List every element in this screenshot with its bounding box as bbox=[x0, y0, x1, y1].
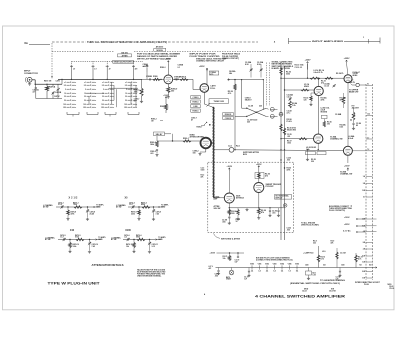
svg-text:THRU ALL SWITCHED ATTENUATOR 4: THRU ALL SWITCHED ATTENUATOR 4 OF AMPLIF… bbox=[87, 41, 167, 44]
label R2-84C bbox=[340, 124, 355, 140]
svg-text:o: o bbox=[136, 82, 137, 84]
dash-dot leader line (mid) bbox=[168, 38, 311, 44]
svg-text:R2-24 PL: R2-24 PL bbox=[336, 72, 345, 75]
component R2-58 bbox=[228, 84, 237, 95]
trigger pickoff dashed box bbox=[208, 162, 294, 233]
svg-text:120: 120 bbox=[304, 100, 307, 102]
dashed leader line 2 bbox=[52, 50, 282, 52]
svg-text:20: 20 bbox=[84, 96, 86, 98]
crossover wires bbox=[246, 108, 266, 118]
svg-text:4.5uH: 4.5uH bbox=[348, 137, 354, 140]
label R2-58A top bbox=[229, 70, 236, 75]
svg-text:o: o bbox=[75, 89, 76, 91]
svg-text:7-45: 7-45 bbox=[156, 212, 159, 215]
triode V2-95A bbox=[224, 193, 234, 203]
svg-text:+100V: +100V bbox=[143, 66, 149, 68]
label atten driver bbox=[190, 134, 205, 139]
attenuator ladder interconnects bbox=[86, 82, 138, 107]
title 4 CHANNEL SWITCHED AMPLIFIER bbox=[255, 293, 345, 298]
svg-text:SW470A (ROTARY): SW470A (ROTARY) bbox=[114, 61, 133, 64]
svg-text:330k: 330k bbox=[286, 74, 290, 76]
svg-text:o: o bbox=[95, 82, 96, 84]
+100V arrow in box bbox=[227, 166, 233, 193]
svg-text:.005: .005 bbox=[215, 275, 218, 277]
svg-text:1k: 1k bbox=[236, 221, 238, 223]
note block voltage conditions bbox=[137, 53, 181, 61]
note heater wiring bbox=[290, 279, 346, 285]
svg-text:o: o bbox=[75, 104, 76, 106]
coax connector output upper bbox=[336, 72, 366, 87]
svg-text:47k: 47k bbox=[265, 175, 268, 178]
label lower mid tube bbox=[330, 136, 343, 141]
svg-text:(THIS PLUG-IN UNIT): (THIS PLUG-IN UNIT) bbox=[301, 225, 319, 227]
svg-text:220: 220 bbox=[259, 106, 262, 108]
svg-text:FOLL: FOLL bbox=[210, 88, 216, 90]
wire V380A plate to V380B bbox=[173, 79, 200, 89]
wire input to attenuator bbox=[32, 80, 62, 85]
label SW 5010 bbox=[156, 46, 163, 49]
label V380A 6DJ8 bbox=[174, 76, 181, 81]
resistor R380-8 bbox=[160, 104, 168, 113]
grid network C380B R380 bbox=[142, 76, 164, 80]
ground X10 bbox=[68, 250, 91, 253]
svg-text:C2-9 47: C2-9 47 bbox=[340, 251, 346, 254]
switch wafer 1 contacts bbox=[63, 81, 76, 109]
variable resistor R470A bbox=[45, 84, 55, 92]
svg-text:1.2-5.5: 1.2-5.5 bbox=[324, 86, 329, 88]
grid stopper R380-4 bbox=[176, 65, 188, 81]
note interconnecting socket bbox=[355, 282, 381, 286]
component column C380-5 bbox=[191, 96, 201, 100]
component plug label bbox=[287, 119, 293, 123]
svg-text:L2-86 PL: L2-86 PL bbox=[348, 82, 355, 84]
svg-text:470k: 470k bbox=[71, 212, 75, 215]
component labels below column bbox=[191, 118, 197, 122]
shielded coax cable run bbox=[212, 108, 214, 198]
svg-text:o: o bbox=[95, 104, 96, 106]
label mid tube bbox=[304, 83, 310, 88]
bias arrow 100V bbox=[351, 205, 367, 207]
grid resistor R380-2 bbox=[143, 65, 149, 80]
note to all stages bbox=[301, 222, 319, 227]
svg-text:+225V: +225V bbox=[256, 164, 262, 166]
svg-text:C2-58: C2-58 bbox=[248, 106, 253, 108]
svg-text:R380-4: R380-4 bbox=[180, 75, 187, 78]
svg-text:1uF: 1uF bbox=[235, 262, 238, 264]
svg-text:.001: .001 bbox=[272, 213, 276, 215]
svg-text:V386: V386 bbox=[295, 264, 299, 266]
svg-text:(TIMING CIRCUIT): (TIMING CIRCUIT) bbox=[222, 58, 239, 60]
svg-text:MODEL: MODEL bbox=[157, 50, 164, 52]
signal bus A bbox=[280, 62, 282, 240]
twisted pair dashed A bbox=[266, 63, 268, 107]
wire into atten driver grid bbox=[173, 140, 201, 142]
svg-text:+100V: +100V bbox=[163, 95, 169, 97]
+100V feed mid bbox=[163, 95, 169, 104]
capacitor C470B bbox=[51, 84, 61, 95]
riser chain 1 bbox=[303, 246, 325, 268]
svg-text:3-12: 3-12 bbox=[152, 246, 155, 248]
svg-text:+ LAMP R2-8: + LAMP R2-8 bbox=[303, 251, 313, 254]
svg-text:V383: V383 bbox=[273, 264, 277, 266]
svg-text:CHANNEL SW: CHANNEL SW bbox=[330, 138, 343, 141]
label switch and atten below box bbox=[214, 233, 241, 240]
triode V380A bbox=[164, 75, 173, 84]
note chopper bbox=[222, 53, 241, 60]
svg-text:R380-0: R380-0 bbox=[160, 67, 166, 69]
svg-text:AT SW: AT SW bbox=[111, 238, 117, 241]
coupling line to right bbox=[214, 147, 344, 152]
label R2-50 cluster bbox=[280, 68, 291, 76]
+225V arrow left bbox=[305, 60, 312, 70]
svg-text:R380-5: R380-5 bbox=[193, 102, 199, 104]
svg-text:220: 220 bbox=[232, 213, 235, 215]
label R2-15 cluster bbox=[321, 81, 326, 85]
svg-text:o: o bbox=[113, 107, 114, 109]
heater lamp network bbox=[306, 268, 317, 280]
atten driver grid resistor bbox=[183, 138, 191, 142]
dist cap C2-70 bbox=[235, 253, 240, 264]
ground X5 bbox=[137, 218, 155, 221]
svg-text:470k: 470k bbox=[321, 99, 325, 102]
mid network components bbox=[340, 93, 347, 108]
svg-text:o: o bbox=[113, 104, 114, 106]
svg-text:4.7k: 4.7k bbox=[228, 92, 232, 95]
label atten sel amp bbox=[213, 195, 244, 200]
svg-text:20: 20 bbox=[125, 96, 127, 98]
cathode bus trigger box bbox=[229, 193, 285, 209]
label to upper beam bbox=[349, 90, 359, 94]
svg-text:100k: 100k bbox=[287, 143, 291, 145]
svg-text:o: o bbox=[75, 93, 76, 95]
trimmer C2-84A bbox=[285, 94, 294, 101]
svg-text:50: 50 bbox=[125, 100, 127, 102]
riser chain 2 bbox=[313, 241, 363, 268]
wire input return bus bbox=[36, 90, 62, 99]
label R2-54 mid bbox=[321, 97, 328, 102]
attenuator detail X5 label bbox=[125, 196, 129, 199]
svg-text:200: 200 bbox=[83, 107, 86, 109]
trimmer C470C bbox=[54, 84, 61, 98]
svg-text:V382: V382 bbox=[265, 264, 269, 266]
switch wafer 4 contacts bbox=[124, 81, 137, 109]
svg-text:X 2 1/2: X 2 1/2 bbox=[69, 196, 78, 199]
svg-text:x1: x1 bbox=[125, 82, 127, 84]
peaking coil L2-14 bbox=[307, 64, 325, 79]
svg-text:8-50: 8-50 bbox=[257, 64, 261, 66]
svg-text:+225V: +225V bbox=[199, 66, 205, 68]
V2-14 cathode resistor bbox=[304, 93, 315, 106]
interface dashed line A bbox=[365, 84, 367, 280]
svg-text:47k: 47k bbox=[201, 176, 204, 179]
svg-text:990k: 990k bbox=[136, 237, 140, 239]
resistor R2-84 bbox=[289, 100, 298, 109]
label MOD left bbox=[302, 288, 309, 292]
svg-text:AT SW: AT SW bbox=[45, 238, 51, 241]
pot R380-7 bbox=[197, 122, 211, 128]
heater cap C2-71 bbox=[244, 268, 251, 281]
svg-text:100: 100 bbox=[101, 104, 104, 106]
interface dashed line B bbox=[372, 84, 374, 280]
triode V2-24 upper right bbox=[344, 75, 352, 83]
label No. with underline bbox=[25, 41, 51, 45]
svg-text:7-45: 7-45 bbox=[92, 245, 95, 248]
lower left network bbox=[306, 147, 327, 158]
component stack R380-3 bbox=[150, 136, 158, 147]
svg-text:820k: 820k bbox=[141, 204, 145, 206]
svg-text:12-63: 12-63 bbox=[302, 291, 307, 293]
svg-text:SWITCHED & ATTEN: SWITCHED & ATTEN bbox=[221, 237, 241, 240]
label switch atten bbox=[243, 151, 260, 156]
wire V380B cathode to cable bbox=[204, 92, 214, 108]
svg-text:10: 10 bbox=[125, 93, 127, 95]
attenuator detail X2.5 bbox=[43, 201, 104, 217]
svg-text:o: o bbox=[95, 100, 96, 102]
heater sub cap bbox=[336, 268, 342, 281]
wire main bus left bbox=[234, 79, 235, 151]
svg-text:o: o bbox=[95, 96, 96, 98]
attenuator detail X10 bbox=[45, 234, 106, 250]
svg-text:R2-1: R2-1 bbox=[236, 146, 240, 148]
svg-text:10-6718: 10-6718 bbox=[329, 291, 336, 293]
V2-95A cathode network bbox=[228, 203, 237, 217]
+100V bus arrow bbox=[344, 217, 366, 220]
svg-text:TO HEATER WIRING: TO HEATER WIRING bbox=[320, 279, 346, 282]
svg-text:o: o bbox=[136, 104, 137, 106]
wire V2-85 to connector pin bbox=[352, 149, 372, 151]
svg-text:V385: V385 bbox=[288, 264, 292, 266]
svg-text:470k: 470k bbox=[287, 169, 291, 172]
svg-text:2: 2 bbox=[352, 80, 353, 82]
svg-text:100: 100 bbox=[83, 104, 86, 106]
svg-text:6.3 V AC: 6.3 V AC bbox=[343, 229, 351, 232]
component column R380-6 bbox=[191, 109, 201, 113]
svg-text:.005: .005 bbox=[287, 160, 290, 162]
svg-text:1000: 1000 bbox=[201, 170, 205, 172]
6.3V AC bus arrow bbox=[343, 229, 366, 232]
svg-text:20: 20 bbox=[64, 96, 66, 98]
svg-text:.5-3: .5-3 bbox=[124, 237, 127, 239]
svg-text:1.2-5: 1.2-5 bbox=[287, 97, 291, 99]
svg-text:+225V: +225V bbox=[344, 58, 351, 60]
+225V arrow right bbox=[344, 58, 351, 74]
ground at V380A cathode bbox=[167, 93, 170, 99]
svg-text:(CONNECT THRU INTERCONNECTING: (CONNECT THRU INTERCONNECTING PLUG) bbox=[256, 260, 293, 262]
svg-text:X10: X10 bbox=[70, 229, 75, 232]
svg-text:910k: 910k bbox=[75, 237, 79, 239]
svg-text:SEL SW: SEL SW bbox=[214, 208, 221, 210]
svg-text:4 CHANNEL SWITCHED AMPLIFIE: 4 CHANNEL SWITCHED AMPLIFIER bbox=[255, 293, 345, 298]
svg-text:o: o bbox=[95, 89, 96, 91]
svg-text:X100: X100 bbox=[125, 229, 131, 232]
+225V bus arrow bbox=[344, 224, 366, 227]
label cathode follower bbox=[210, 85, 216, 90]
page number mark bbox=[204, 293, 206, 296]
svg-text:750k: 750k bbox=[73, 204, 77, 206]
svg-text:ATTEN-B: ATTEN-B bbox=[236, 197, 244, 200]
svg-text:47k: 47k bbox=[331, 241, 334, 244]
label SN right bbox=[329, 288, 336, 292]
V2-14 plate tap bbox=[318, 78, 319, 87]
labels left of trig box bbox=[201, 168, 205, 179]
svg-text:o: o bbox=[75, 85, 76, 87]
svg-text:10k: 10k bbox=[223, 258, 226, 260]
svg-text:No: No bbox=[25, 41, 29, 45]
svg-text:47: 47 bbox=[191, 119, 193, 122]
label C2-58b bbox=[287, 111, 292, 115]
svg-text:2.5: 2.5 bbox=[64, 85, 66, 87]
svg-text:WOUND: WOUND bbox=[321, 112, 328, 114]
boxed label tube sel 1 bbox=[223, 113, 234, 117]
svg-text:3-7: 3-7 bbox=[367, 137, 369, 139]
triode V380B bbox=[200, 84, 209, 93]
bottom components trig box bbox=[222, 208, 240, 225]
svg-text:1uF: 1uF bbox=[244, 279, 247, 281]
connector circle on bus A bbox=[279, 112, 283, 116]
dash-dot leader line (left) bbox=[52, 41, 86, 43]
switch wafer stem 2 bbox=[92, 61, 95, 79]
svg-text:4.7k: 4.7k bbox=[358, 257, 361, 260]
label C2-1 bbox=[228, 146, 240, 148]
attenuator detail X100 label bbox=[125, 229, 131, 232]
svg-text:+100V: +100V bbox=[227, 166, 233, 168]
trimmer C2-58A bbox=[245, 61, 252, 77]
svg-text:SELECT: SELECT bbox=[245, 99, 253, 101]
svg-text:R470A: R470A bbox=[49, 86, 56, 89]
twisted pair dashed B bbox=[268, 63, 270, 107]
svg-text:4.7k: 4.7k bbox=[321, 257, 324, 260]
svg-text:.001: .001 bbox=[150, 153, 154, 155]
wire bus to upper grid bbox=[280, 77, 344, 79]
svg-text:50: 50 bbox=[102, 100, 104, 102]
heater taps row bbox=[250, 263, 299, 273]
cathode resistor R380-9 bbox=[167, 84, 178, 93]
ground at input connector bbox=[28, 83, 31, 86]
triode V494 atten driver bbox=[201, 138, 212, 149]
svg-text:TUNE 5105: TUNE 5105 bbox=[213, 101, 224, 103]
svg-text:R470 1M: R470 1M bbox=[44, 80, 52, 83]
label trigger pickoff bbox=[266, 184, 282, 188]
input connector J470 bbox=[25, 77, 32, 83]
switch wafer bottom bracket 4 bbox=[128, 112, 139, 115]
pilot lamp B470 bbox=[226, 268, 234, 281]
svg-text:R380-8: R380-8 bbox=[160, 106, 166, 108]
svg-text:180k: 180k bbox=[150, 144, 154, 146]
svg-text:50: 50 bbox=[84, 100, 86, 102]
label C2-59 lower bbox=[247, 120, 257, 124]
svg-text:200: 200 bbox=[124, 107, 127, 109]
svg-text:47k: 47k bbox=[261, 211, 264, 214]
svg-text:2.5: 2.5 bbox=[125, 85, 127, 87]
triode V2-14 mid bbox=[314, 86, 323, 95]
svg-text:TYPE W PLUG-IN UNIT: TYPE W PLUG-IN UNIT bbox=[48, 281, 101, 285]
svg-text:+225V: +225V bbox=[165, 59, 172, 61]
label atten sel sw bbox=[214, 205, 221, 210]
svg-text:o: o bbox=[136, 107, 137, 109]
svg-text:220k: 220k bbox=[131, 213, 135, 215]
svg-text:ATTENUATOR DETAILS: ATTENUATOR DETAILS bbox=[92, 263, 124, 267]
svg-text:o: o bbox=[113, 100, 114, 102]
triode V2-84 lower mid bbox=[314, 134, 323, 143]
svg-text:BEAM CRT: BEAM CRT bbox=[349, 91, 359, 94]
riser labels top bbox=[322, 251, 326, 253]
svg-text:0.6uH 2.7k: 0.6uH 2.7k bbox=[314, 72, 324, 74]
svg-text:C470: C470 bbox=[56, 80, 60, 83]
switch wafer stem 3 bbox=[106, 61, 109, 79]
caption type W plug-in unit bbox=[48, 281, 101, 285]
svg-text:V381: V381 bbox=[258, 264, 262, 266]
svg-text:SELECTED: SELECTED bbox=[287, 130, 297, 132]
svg-text:x1: x1 bbox=[102, 82, 104, 84]
wire bus to V2-84 grid bbox=[280, 138, 313, 140]
interstage network bbox=[319, 83, 348, 146]
svg-text:o: o bbox=[113, 82, 114, 84]
switch wafer stem 1 bbox=[70, 61, 73, 79]
svg-text:100: 100 bbox=[124, 104, 127, 106]
svg-text:68k: 68k bbox=[229, 73, 232, 75]
label L2-84 coil bbox=[321, 107, 332, 128]
svg-text:39k: 39k bbox=[327, 124, 330, 126]
wire V2-85 cathode down bbox=[344, 155, 350, 171]
note block input point bbox=[190, 54, 221, 58]
note block bottom left bbox=[137, 268, 166, 277]
switch column value labels bbox=[73, 68, 138, 71]
label R2-10 cluster bbox=[295, 65, 304, 69]
svg-text:C2-71: C2-71 bbox=[244, 277, 249, 279]
svg-text:20-48: 20-48 bbox=[90, 212, 94, 215]
svg-text:220: 220 bbox=[247, 122, 250, 124]
cap C2-97 bbox=[277, 208, 280, 217]
switch wafer bottom bracket 1 bbox=[67, 112, 79, 117]
coax connector CE lower bbox=[266, 114, 278, 118]
label C2-58 upper bbox=[248, 106, 262, 108]
svg-text:R380-6: R380-6 bbox=[193, 111, 199, 113]
wire main bus left lower bbox=[241, 79, 242, 108]
label 6.3V AC bbox=[209, 266, 214, 270]
svg-text:R380-1: R380-1 bbox=[183, 138, 189, 140]
svg-text:C2-10 .01: C2-10 .01 bbox=[295, 67, 303, 69]
svg-text:13-2: 13-2 bbox=[367, 114, 370, 116]
switch mechanical linkage dashed bbox=[72, 61, 113, 63]
switch wafer stem 4 bbox=[132, 61, 135, 79]
note mod right bbox=[388, 284, 395, 290]
plate supply arrow V380B +225V bbox=[199, 66, 219, 84]
component column R380-5 bbox=[191, 100, 201, 104]
svg-text:PLUG: PLUG bbox=[287, 121, 293, 123]
label INPUT CONNECTOR bbox=[24, 71, 38, 75]
wire bus to mid grid bbox=[284, 89, 314, 91]
heater bus labels above bbox=[305, 264, 372, 267]
svg-text:200: 200 bbox=[63, 107, 66, 109]
svg-text:AT SW: AT SW bbox=[116, 206, 122, 209]
svg-text:L380: L380 bbox=[193, 106, 197, 108]
svg-text:ONES SHOWN ARE NOMINAL.: ONES SHOWN ARE NOMINAL. bbox=[137, 274, 162, 277]
svg-text:SEL BY: SEL BY bbox=[156, 134, 164, 136]
svg-text:10k: 10k bbox=[126, 246, 129, 248]
V2-84 cathode stub bbox=[311, 143, 319, 163]
svg-text:1.5-7: 1.5-7 bbox=[60, 237, 64, 239]
wire mid vertical right bbox=[263, 79, 264, 110]
circled letter A bbox=[283, 204, 287, 208]
attenuator detail X5 bbox=[116, 201, 169, 217]
heater cap C470H bbox=[215, 268, 221, 278]
note THRU ALL SWITCHED ATTENUATOR bbox=[87, 41, 167, 44]
svg-text:CHANNEL SW: CHANNEL SW bbox=[340, 173, 352, 176]
svg-text:o: o bbox=[75, 100, 76, 102]
svg-text:6DK6: 6DK6 bbox=[304, 86, 309, 88]
svg-text:.005: .005 bbox=[287, 230, 290, 232]
label ATTEN SW rotary bbox=[113, 60, 149, 68]
